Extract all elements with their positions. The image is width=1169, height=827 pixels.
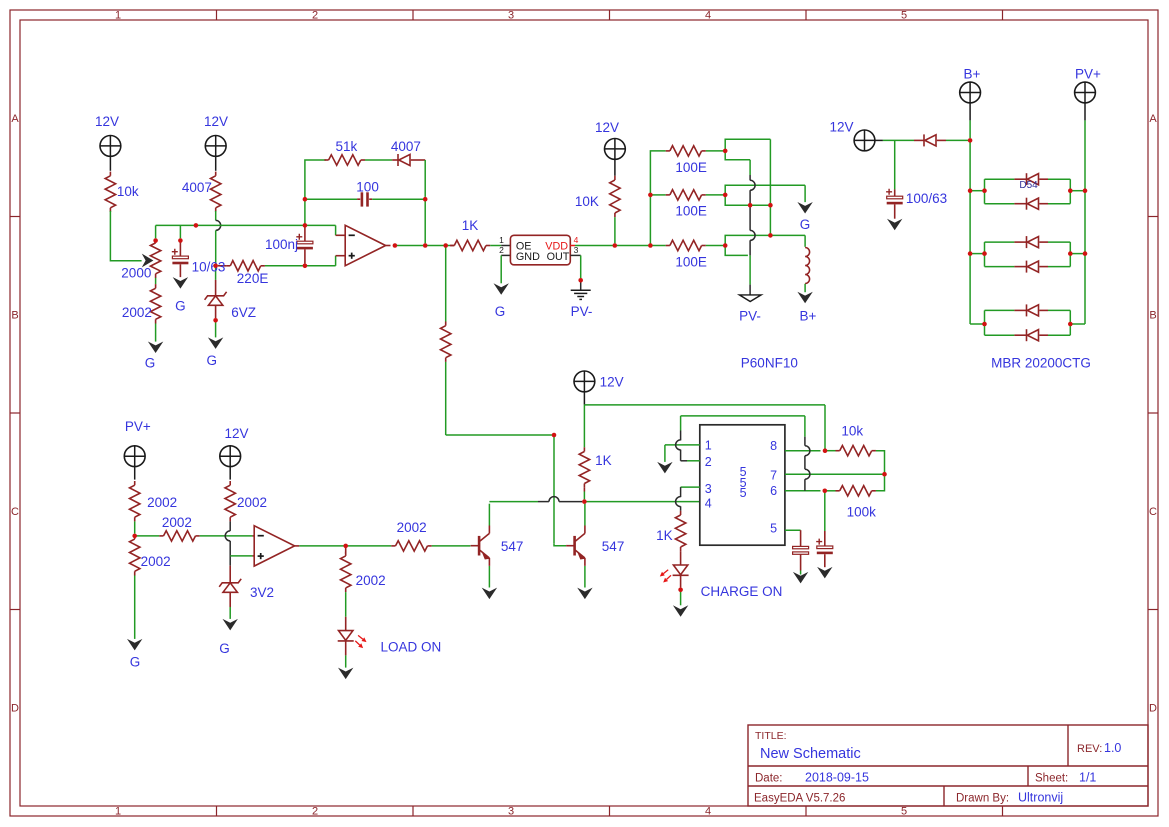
wire pair2 to PV+ bus [1070,253,1085,255]
net port PV- triangle [739,295,761,302]
junction threshold node [823,489,828,494]
wire B+ bus to pair1 [970,190,984,192]
svg-text:4: 4 [705,10,711,22]
svg-text:100k: 100k [847,505,877,520]
svg-text:2002: 2002 [356,573,386,588]
resistor 100E row1 [666,150,670,152]
wire pair2 top left [985,241,1015,243]
wire 2002 to ground [155,324,157,342]
wire 12V rail to 555 VCC [584,404,825,406]
wire hop to 220E tap [215,230,217,263]
resistor 4007 [215,172,217,176]
wire + net to bend [303,265,336,267]
junction right bus row2 [768,203,773,208]
wire center bus black 2 [749,190,751,230]
wire U1 output to 1K [395,245,450,247]
wire pin1 to ground [664,445,666,462]
diode pair1 bottom (MBR) [1026,198,1028,210]
wire pair1 bottom right [1048,203,1070,205]
frame column tick top [1002,10,1004,20]
power port 12V (reference) [220,446,241,467]
ground arrow G (divider) [148,342,163,354]
wire pin2-6 top link [681,415,805,417]
svg-text:100nj: 100nj [265,237,298,252]
wire 100E left bus [650,151,665,246]
wire right bus [769,139,771,235]
ground arrow (cap 100/63) [887,219,902,231]
wire pin2-6 link right drop green [804,416,806,437]
wire feedback right leg lower [424,199,426,243]
wire 555 pin 3 [681,486,700,488]
svg-text:GND: GND [516,251,540,263]
svg-text:1.0: 1.0 [1104,741,1121,755]
svg-text:3: 3 [508,10,514,22]
220E left lead [218,265,226,267]
svg-text:5: 5 [770,521,777,535]
op-amp U4 (comparator) [254,526,294,566]
wire 100 cap to right leg [372,198,425,200]
wire trigger node down A [553,435,555,497]
wire pot to 2002 [155,278,157,284]
wire PV+ bus lower [1084,189,1086,324]
svg-text:2002: 2002 [147,495,177,510]
IC U2 driver box [510,235,570,264]
svg-text:2: 2 [312,806,318,818]
svg-text:2002: 2002 [237,495,267,510]
svg-text:PV+: PV+ [1075,67,1101,82]
junction 100 cap right [423,197,428,202]
wire 2002 series to U4 inverting input [200,535,253,537]
zener 6VZ anode lead [215,305,217,318]
wire pin2 link black lower [680,450,682,461]
cap 10/63 top lead [179,241,181,257]
wire pair1 top right [1048,178,1070,180]
junction pot top [153,238,158,243]
junction row3 gate node [723,243,728,248]
svg-text:12V: 12V [600,375,624,390]
arrow B+ net pointer [797,292,812,304]
cap 100/63 top lead [894,189,896,196]
wire 3V2 to ground [229,607,231,619]
svg-text:1K: 1K [462,218,479,233]
resistor 10k [109,172,111,176]
svg-text:1/1: 1/1 [1079,771,1096,785]
svg-text:6VZ: 6VZ [231,305,256,320]
zener 6VZ cathode lead [215,280,217,296]
wire gate bus to G arrow [804,185,806,202]
svg-text:12V: 12V [595,120,619,135]
wire reference black upper [229,521,231,531]
svg-text:1: 1 [499,235,504,245]
U2 pin 4 lead [570,245,575,247]
junction top net [194,223,199,228]
cap 100nj top lead [304,225,306,241]
power port 12V (bottom) [574,371,595,392]
wire output to 2002 series [346,545,392,547]
wire U2 OUT down [580,255,582,278]
svg-text:100E: 100E [675,160,707,175]
svg-text:12V: 12V [204,114,228,129]
wire 10k to pot wiper [110,211,141,261]
resistor 2002 (reference) [229,481,231,485]
LED glow arrows [663,570,668,574]
wire 2002 to sense node [134,521,136,533]
capacitor 100 [361,192,364,206]
U4 non-inverting input pin [252,555,254,557]
junction pair3 left [982,322,987,327]
frame column tick top [412,10,414,20]
power port 12V (4007 branch) [205,136,226,157]
capacitor 100nj [297,241,313,244]
junction right bus row3 [768,233,773,238]
ground arrow G (zener) [208,337,223,349]
junction top net at 100nj [303,223,308,228]
title block Drawn By divider [943,786,945,806]
ground arrow G (3V2) [223,619,238,631]
svg-text:7: 7 [770,469,777,483]
junction 10K rail [613,243,618,248]
svg-text:547: 547 [602,539,625,554]
svg-text:Drawn By:: Drawn By: [956,793,1009,805]
zener 3V2 cathode lead [229,566,231,583]
svg-text:100: 100 [356,180,379,195]
junction B+ bus pair2 [968,251,973,256]
svg-text:TITLE:: TITLE: [755,730,787,742]
U2 pin 2 lead [501,254,510,256]
frame column tick top [609,10,611,20]
svg-text:100/63: 100/63 [906,191,947,206]
wire pair1 top left [985,178,1015,180]
wire 100k to discharge node [876,476,885,490]
capacitor threshold (polar) [817,546,833,549]
diode pair3 top (MBR) [1026,304,1028,316]
wire VCC to 10k [825,450,836,452]
wire center bus black 1 [749,175,751,180]
resistor 2002 (divider lower) [155,284,157,288]
svg-text:G: G [130,655,141,670]
svg-text:2002: 2002 [122,305,152,320]
junction discharge node [882,472,887,477]
wire bus to 100E row2 [650,194,665,196]
svg-text:51k: 51k [336,139,358,154]
U1 output pin [386,245,391,247]
1K bottom lead ext [583,488,585,492]
wire U4 output [299,545,343,547]
svg-text:12V: 12V [829,120,853,135]
wire hop pin2 link over pin1 [676,440,681,450]
wire row3 arm to inductor [804,235,806,246]
wire U2 pin2 to ground [500,255,502,283]
title block row divider 1 [748,765,1148,767]
junction center bus row2 [748,203,753,208]
LED anode lead [345,617,347,631]
inductor (B+ choke) [805,248,810,284]
wire pair3 bottom left [985,334,1015,336]
wire hop reference over sense net [225,531,230,541]
diode pair 2 box [984,242,986,267]
diode 4007 anode lead [411,159,425,161]
cap (threshold) top lead [824,531,826,546]
wire link black 3 to pin6 [804,479,806,491]
frame column tick top [805,10,807,20]
power port 12V (10K branch) [605,139,626,160]
svg-text:1K: 1K [595,453,612,468]
svg-text:CHARGE ON: CHARGE ON [701,584,783,599]
svg-text:2: 2 [705,455,712,469]
frame row tick right [1148,412,1158,414]
svg-text:A: A [1149,113,1157,125]
svg-text:LOAD ON: LOAD ON [381,639,442,654]
svg-text:2002: 2002 [141,554,171,569]
power port PV+ [1075,82,1096,103]
wire row1 loop [725,139,770,160]
wire Q1 emitter down [488,566,490,588]
junction pair1 left [982,188,987,193]
svg-text:EasyEDA V5.7.26: EasyEDA V5.7.26 [754,793,845,805]
resistor 2002 (LED) [345,552,347,556]
wire 100E row2 out [706,194,723,196]
2002 pull top lead [345,548,347,554]
ground arrow (CHARGE LED) [673,605,688,617]
junction collector node [582,499,587,504]
power port 12V (top-left) [100,136,121,157]
zener 3V2 anode lead [229,592,231,607]
U2 pin 1 lead [501,245,510,247]
svg-text:2: 2 [312,10,318,22]
title block [748,725,1148,806]
wire Q2 collector up [584,504,586,526]
resistor 2002 (base series) [391,545,395,547]
svg-text:B: B [11,310,18,322]
transistor Q1 547 [478,536,481,556]
ground arrow (Q2 emitter) [577,588,592,600]
wire Q1 collector up [488,504,490,526]
wire 220E to + net [265,265,303,267]
frame row tick right [1148,609,1158,611]
wire 100E row3 out [706,245,723,247]
svg-text:B+: B+ [800,309,817,324]
wire inductor to B+ arrow [804,284,806,292]
U1 inverting input pin [336,234,346,236]
svg-text:10K: 10K [575,194,599,209]
wire tap to zener [215,266,217,280]
svg-text:OUT: OUT [547,251,570,263]
transistor Q2 547 [573,536,576,556]
wire bus to 100E row3 [650,245,665,247]
wire feedback left leg [305,160,326,225]
wire reference to U4 non-inverting input [230,555,252,557]
resistor 100E row3 [666,245,670,247]
junction 100E bus bottom [648,243,653,248]
resistor 1K (CHARGE LED) [680,511,682,515]
frame row tick left [10,609,20,611]
svg-text:4: 4 [574,235,579,245]
CHARGE LED cathode lead [680,575,682,587]
junction CHARGE LED cathode [678,588,683,593]
wire 555 pin7 [785,473,885,475]
LED glow arrows [358,635,363,639]
wire threshold down to cap [824,491,826,531]
svg-text:4007: 4007 [391,139,421,154]
svg-text:3: 3 [508,806,514,818]
capacitor 100/63 [887,196,903,199]
wire pair2 bottom right [1048,266,1070,268]
junction cap 10/63 top [178,238,183,243]
wire sense node to 2002 series [135,535,160,537]
wire bend to U1 non-inverting input [335,256,337,266]
svg-text:5: 5 [901,806,907,818]
svg-text:5: 5 [901,10,907,22]
ground arrow (threshold cap) [817,567,832,579]
resistor 1K (collector pull) [583,447,585,451]
wire 51k to diode [365,159,392,161]
frame row tick left [10,412,20,414]
svg-text:4007: 4007 [182,180,212,195]
junction pair3 right [1068,322,1073,327]
U4 output pin [295,545,300,547]
CHARGE LED anode lead [680,551,682,565]
svg-text:A: A [11,113,19,125]
wire 12V branch to cap 100/63 [894,140,896,189]
wire 1K to collector node [583,492,585,500]
diode pair2 top (MBR) [1026,236,1028,248]
ground arrow G (U2) [494,283,509,295]
svg-text:2: 2 [499,245,504,255]
wire 555 pin 1 [665,444,700,446]
wire pair2 bottom left [985,266,1015,268]
diode pair3 bottom (MBR) [1026,329,1028,341]
series diode cathode lead [914,139,924,141]
title block row divider 2 [748,785,1148,787]
frame column tick bottom [216,806,218,816]
ground arrow G (cap 10/63) [173,277,188,289]
wire collector rail black B [559,501,582,503]
junction PV+ bus pair1 [1083,188,1088,193]
wire pin2-6 link down green [680,416,682,431]
wire reference black lower [229,541,231,566]
svg-text:PV-: PV- [571,304,593,319]
junction sense node [132,534,137,539]
wire 2002 to Q1 base [432,545,471,547]
wire to Q2 base [554,544,566,546]
svg-text:4: 4 [705,496,712,510]
U2 pin 3 lead [570,254,580,256]
svg-text:PV-: PV- [739,309,761,324]
svg-text:C: C [1149,506,1157,518]
frame column tick bottom [412,806,414,816]
resistor 100k (timing) [836,490,840,492]
svg-text:1K: 1K [656,528,673,543]
wire 2002 to ground (long) [134,576,136,639]
wire 10k to discharge node [876,451,885,472]
wire 100E row1 out [706,150,723,152]
wire zener to ground [215,320,217,337]
title block Sheet divider [1027,766,1029,786]
zener diode 6VZ [205,292,227,300]
wire 12V to 1K [583,405,585,447]
diode pair 1 box [984,179,986,204]
svg-text:1: 1 [705,438,712,452]
frame column tick bottom [805,806,807,816]
svg-text:B: B [1149,310,1156,322]
junction output divider branch [443,243,448,248]
diode pair1 top (MBR) [1026,173,1028,185]
wire pair3 top left [985,309,1015,311]
cap pin5 top lead [800,530,802,546]
svg-text:Ultronvij: Ultronvij [1018,791,1063,805]
wire hop link over pin7 [805,469,810,479]
resistor 100E row2 [666,194,670,196]
wire collector rail black A [538,501,549,503]
wire row2 loop [725,185,805,205]
resistor 2002 (PV+ upper) [134,481,136,485]
wire pair1 bottom left [985,203,1015,205]
svg-text:G: G [219,641,230,656]
wire 1K to U2 pin1 [490,245,501,247]
wire 12V to series diode [883,139,914,141]
wire collector rail to 555 pin4 [584,501,699,503]
wire top net to cap 10/63 [179,225,181,238]
ground arrow G (PV+ divider) [127,639,142,651]
junction 100E bus row2 [648,193,653,198]
wire rail to 100E bus [648,245,650,247]
wire 555 pin8 [785,450,821,452]
svg-text:2018-09-15: 2018-09-15 [805,771,869,785]
svg-text:C: C [11,506,19,518]
frame row tick left [10,216,20,218]
wire feedback right leg upper [424,160,426,197]
svg-text:12V: 12V [224,426,248,441]
svg-text:MBR 20200CTG: MBR 20200CTG [991,356,1091,371]
wire pin2 corner black [681,460,687,462]
svg-text:3: 3 [705,482,712,496]
resistor 10k (timing) [836,450,840,452]
wire hop center bus over row2 arm [750,180,755,190]
svg-text:Sheet:: Sheet: [1035,773,1068,785]
wire to 100 cap left [305,198,357,200]
wire hop over top net [216,220,221,230]
diode 4007 (feedback) [397,154,399,166]
wire 10K to rail [614,217,616,243]
junction U4 output [343,544,348,549]
svg-text:3: 3 [574,245,579,255]
wire link black 1 [804,437,806,446]
wire row3 loop [725,235,805,255]
svg-text:G: G [800,217,811,232]
ground arrow (LOAD LED) [338,668,353,680]
cap pin5 green stub [800,571,802,575]
junction pair2 right [1068,251,1073,256]
svg-text:6: 6 [770,484,777,498]
svg-text:1: 1 [115,806,121,818]
cap 100 left lead [357,198,360,200]
wire center bus upper green [749,160,751,175]
junction B+ bus top [968,138,973,143]
op-amp U1 [345,225,385,265]
resistor 2002 (series to comparator) [159,535,163,537]
svg-text:D: D [1149,703,1157,715]
frame column tick top [216,10,218,20]
wire pair2 top right [1048,241,1070,243]
wire divider lower [445,362,447,435]
junction 100nj bottom [303,264,308,269]
svg-text:100E: 100E [675,203,707,218]
cap 100/63 bottom lead [894,204,896,218]
svg-text:D54: D54 [1019,180,1038,191]
U4 inverting input pin [252,535,254,537]
junction U2 OUT earth [578,278,583,283]
wire pair3 bottom right [1048,334,1070,336]
